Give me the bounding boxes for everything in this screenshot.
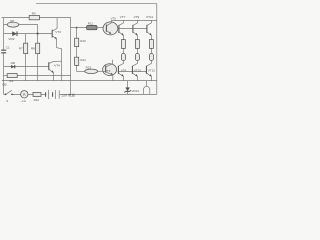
svg-text:VT5: VT5 (111, 17, 117, 21)
svg-text:S: S (6, 99, 8, 103)
svg-text:100: 100 (10, 61, 15, 65)
svg-text:VT6: VT6 (105, 69, 111, 73)
svg-text:VT3: VT3 (55, 30, 61, 34)
svg-text:R12: R12 (34, 98, 40, 102)
svg-text:VD13: VD13 (131, 89, 139, 93)
svg-text:R12: R12 (80, 58, 86, 62)
svg-text:VT10: VT10 (134, 68, 142, 72)
svg-text:A: A (23, 92, 26, 97)
svg-text:mA: mA (22, 99, 26, 103)
svg-text:12V 电池: 12V 电池 (61, 92, 75, 97)
svg-text:R11: R11 (88, 21, 94, 25)
svg-text:VD2: VD2 (8, 37, 14, 41)
svg-text:VT4: VT4 (54, 63, 60, 67)
svg-text:R10: R10 (80, 39, 86, 43)
svg-text:C1: C1 (6, 45, 10, 49)
svg-text:RP: RP (10, 19, 14, 23)
svg-text:R8: R8 (31, 47, 35, 51)
svg-text:R7: R7 (19, 47, 23, 51)
svg-text:VT8: VT8 (121, 68, 127, 72)
svg-text:VT12: VT12 (148, 68, 156, 72)
svg-text:R13: R13 (86, 65, 92, 69)
svg-text:GB: GB (2, 83, 6, 87)
svg-text:VT7: VT7 (120, 15, 126, 19)
svg-text:VT9: VT9 (134, 15, 140, 19)
svg-text:VT11: VT11 (146, 15, 153, 19)
svg-text:R5: R5 (32, 11, 36, 15)
